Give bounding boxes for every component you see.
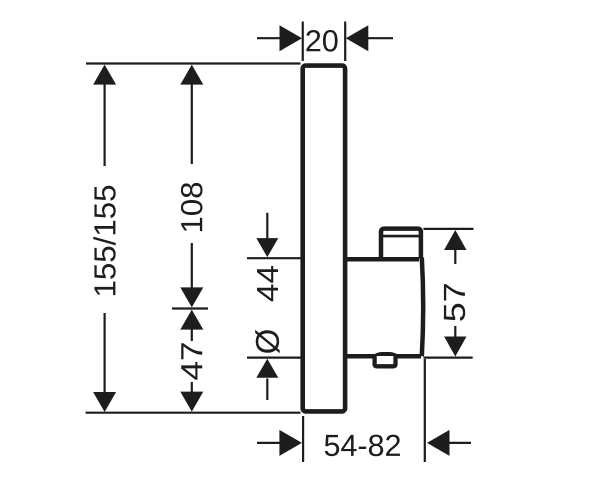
20 right arrow <box>346 25 369 51</box>
body bottom bump <box>374 353 399 356</box>
tab <box>375 356 396 366</box>
54-82 left arrow <box>279 430 302 456</box>
cap seam <box>382 235 424 238</box>
label 20 <box>306 30 337 52</box>
54-82 dim segments <box>257 442 281 444</box>
body bottom edge <box>347 354 421 359</box>
cap <box>381 229 421 259</box>
d44 dim line <box>266 213 268 239</box>
label diameter symbol <box>255 330 279 353</box>
108 top arrow <box>180 65 203 85</box>
155 bottom arrow <box>93 392 116 412</box>
155/155 dim line <box>103 83 105 166</box>
108 mid arrow <box>180 287 203 307</box>
54-82 ext lines <box>302 416 304 462</box>
57 bottom arrow <box>444 337 466 357</box>
44 bottom arrow <box>256 359 278 378</box>
top horizontal extension <box>86 62 301 64</box>
plate <box>303 66 345 412</box>
47 bottom arrow <box>180 392 203 412</box>
label 47 <box>181 343 202 379</box>
label 155/155 <box>93 186 115 295</box>
thin lines <box>86 22 474 463</box>
body right edge <box>422 258 423 357</box>
57 ext lines <box>424 228 474 230</box>
label 44 <box>257 266 278 301</box>
20 dim line segments <box>257 37 281 39</box>
mid tick <box>172 307 208 309</box>
arrows <box>93 25 466 456</box>
155 top arrow <box>93 65 116 85</box>
57 dim line <box>454 249 456 264</box>
20 dim: extension lines <box>302 22 304 62</box>
108 dim line <box>191 83 193 164</box>
label 108 <box>181 183 203 231</box>
label 54-82 <box>325 435 400 457</box>
44 top arrow <box>256 238 278 257</box>
57 top arrow <box>444 230 466 250</box>
label 57 <box>444 284 465 321</box>
body top edge <box>347 257 419 262</box>
54-82 right arrow <box>427 430 450 456</box>
47 dim line <box>191 329 193 341</box>
47 up arrow <box>180 310 203 330</box>
20 left arrow <box>280 25 303 51</box>
bottom horizontal extension <box>86 412 301 414</box>
